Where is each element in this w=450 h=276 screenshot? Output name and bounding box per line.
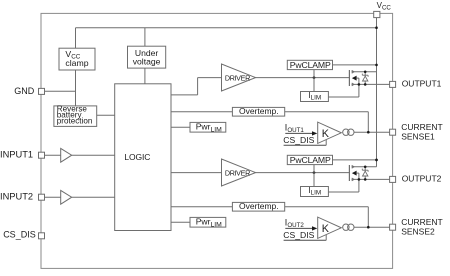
wire overtemp2 to sense node [285,206,369,208]
overtemp1 box [232,107,284,116]
pin OUTPUT1 [390,81,396,87]
wire PwCLAMP1 to Vcc rail [333,64,377,66]
wire under voltage to logic [144,68,146,84]
Ilim1 box [301,92,329,102]
wire CS_DIS2 to K2 [284,239,327,241]
wire logic to pwrlim1 [171,126,190,128]
mosfet T1 drain stub [352,71,377,73]
wire K2 to sense pin [354,226,390,228]
mosfet T2 source stub [352,178,390,180]
svg-text:INPUT2: INPUT2 [0,191,33,201]
zener diode D2 [364,167,366,180]
junction Vcc bus node [375,26,378,29]
svg-text:DRIVER: DRIVER [225,169,250,178]
sense amp K2 [318,217,342,238]
junction sense2 node [367,226,370,229]
svg-text:GND: GND [14,86,35,96]
wire K1 to sense pin [354,131,390,133]
junction driver1 gate node [313,76,316,79]
svg-text:clamp: clamp [65,58,88,68]
pin OUTPUT2 [390,176,396,182]
wire logic to driver2 [171,172,222,174]
pin GND [39,88,45,94]
svg-text:DRIVER: DRIVER [225,74,250,83]
svg-text:Overtemp.: Overtemp. [239,106,279,116]
svg-text:protection: protection [57,116,93,125]
Vcc supply bus wire [76,27,377,29]
svg-text:K: K [322,128,330,140]
mosfet T2 drain stub [352,166,377,168]
mosfet T2 body arrow [352,171,357,176]
junction PwCLAMP2 Vcc rail [375,159,378,162]
pin CS_DIS [39,233,45,239]
wire Iout2 with arrow [285,227,312,229]
svg-text:voltage: voltage [133,56,161,66]
svg-text:CURRENT: CURRENT [401,217,443,227]
wire Iout1 with arrow [285,132,312,134]
pin CURRENT SENSE2 [390,224,396,230]
wire GND to clamp rail [45,90,76,92]
mosfet T1 gate bar [348,70,350,86]
wire Vcc vertical rail [376,17,378,167]
svg-text:LOGIC: LOGIC [124,152,150,162]
pin CURRENT SENSE1 [390,129,396,135]
wire driver2 output to gate [256,172,350,174]
svg-text:CS_DIS: CS_DIS [283,135,314,145]
outer boundary of IC [41,13,393,268]
wire INPUT1 to buffer [45,154,61,156]
junction PwCLAMP1 Vcc rail [375,64,378,67]
svg-text:SENSE2: SENSE2 [401,226,435,236]
pin INPUT2 [39,194,45,200]
svg-text:IOUT2: IOUT2 [285,217,305,229]
Ilim2 box [301,187,329,197]
driver U1 [222,64,256,91]
svg-text:CS_DIS: CS_DIS [3,230,36,240]
junction source sense 1 [358,83,361,86]
wire PwCLAMP2 down to Ilim2 [313,165,315,187]
PwCLAMP1 box [287,60,332,69]
wire PwCLAMP2 to Vcc rail [333,159,377,161]
mosfet T1 source stub [352,83,390,85]
wire logic to pwrlim2 [171,221,190,223]
svg-text:OUTPUT1: OUTPUT1 [402,79,442,89]
junction PwCLAMP2 rail node [375,159,378,162]
reverse battery protection box U5 [54,106,97,127]
sense amp K1 [318,122,342,143]
wire logic to overtemp2 [171,206,232,208]
input buffer A2 [61,190,72,204]
svg-text:OUTPUT2: OUTPUT2 [402,174,442,184]
zener diode D1 [364,72,366,85]
PwCLAMP2 box [287,155,332,164]
current mirror circles 1 [343,129,349,135]
svg-text:PwCLAMP: PwCLAMP [290,60,331,70]
svg-text:IOUT1: IOUT1 [285,122,305,134]
svg-text:INPUT1: INPUT1 [0,150,33,160]
junction source sense 2 [358,178,361,181]
junction source diode 2 [364,178,367,181]
wire bus to under voltage [144,28,146,47]
driver U2 [222,159,256,186]
wire driver1 output to gate [256,77,350,79]
wire logic to driver1 with step [171,94,198,96]
svg-text:VCC: VCC [377,1,392,12]
mosfet T1 body arrow [352,76,357,81]
wire overtemp1 to sense node [285,111,369,113]
wire reverse battery to logic [97,114,115,116]
PwrLIM2 box [190,217,226,227]
junction drain diode 2 [364,166,367,169]
current mirror circles 2 [343,224,349,230]
junction sense1 node [367,131,370,134]
junction driver2 gate node [313,171,316,174]
wire buffer A2 to logic [72,196,115,198]
svg-text:CS_DIS: CS_DIS [283,230,314,240]
wire INPUT2 to buffer [45,196,61,198]
mosfet T2 gate bar [348,165,350,181]
wire bus to Vcc clamp [75,28,77,49]
logic box U6 [115,84,171,231]
pin INPUT1 [39,152,45,158]
wire CS_DIS1 to K1 [284,144,327,146]
wire Vcc clamp to reverse battery box [75,70,77,106]
svg-text:Overtemp.: Overtemp. [239,201,279,211]
svg-text:CURRENT: CURRENT [401,122,443,132]
junction source diode 1 [364,83,367,86]
input buffer A1 [61,148,72,162]
svg-text:K: K [322,223,330,235]
Vcc clamp box U3 [59,48,95,70]
svg-text:PwCLAMP: PwCLAMP [290,155,331,165]
wire Ilim2 to mosfet sense [328,191,359,193]
wire logic to overtemp1 [171,111,232,113]
wire buffer A1 to logic [72,154,115,156]
junction drain diode 1 [364,71,367,74]
overtemp2 box [232,202,284,211]
pin VCC [374,11,380,17]
PwrLIM1 box [190,122,226,132]
wire Ilim1 to mosfet sense [328,96,359,98]
wire PwCLAMP1 down to Ilim1 [313,70,315,92]
svg-text:SENSE1: SENSE1 [401,131,435,141]
under voltage box U4 [128,46,166,68]
